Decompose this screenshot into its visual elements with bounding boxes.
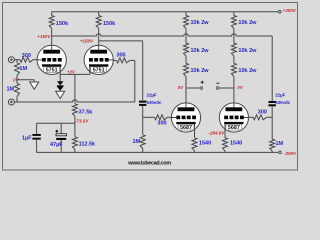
wire bottom jack to grid2 with hop (14, 100, 135, 102)
resistor 150k (left) (49, 16, 54, 29)
svg-text:1540: 1540 (199, 141, 211, 147)
resistor 1M (lower) (15, 83, 20, 96)
svg-text:-73.5V: -73.5V (75, 119, 89, 124)
svg-text:1M: 1M (132, 139, 140, 145)
resistor 10k 2w (right col mid) (231, 43, 236, 56)
resistor 10k 2w (left col mid) (184, 43, 189, 56)
wire col left to plate (185, 76, 187, 103)
wire 1540 left bottom (194, 151, 196, 153)
wire -300V bottom rail (37, 151, 279, 153)
svg-text:10k 2w: 10k 2w (191, 68, 210, 74)
diode D2 (57, 87, 64, 91)
svg-text:300: 300 (157, 121, 166, 127)
svg-text:5751: 5751 (93, 68, 105, 74)
wire ground stem (33, 80, 35, 82)
wire to tube2 grid (113, 59, 116, 61)
wire col left mid1 (185, 29, 187, 44)
svg-text:300: 300 (22, 53, 31, 59)
wire 47uF top lead (60, 123, 62, 134)
resistor 300 tube4 grid stopper (253, 115, 266, 120)
input jack (8, 57, 14, 63)
wire +300V top rail (52, 11, 279, 13)
wire to tube3 grid (167, 116, 171, 118)
svg-text:112.5k: 112.5k (79, 141, 96, 147)
wire 1540 right bottom (224, 151, 226, 153)
wire 112.5k to rail (74, 149, 76, 152)
capacitor 22uF left (139, 101, 146, 103)
wire 0V node down (16, 80, 18, 84)
terminal bottom input jack (8, 99, 14, 105)
svg-text:+150V: +150V (37, 34, 51, 39)
wire 1M to 0V node (16, 76, 18, 80)
wire grid2 riser (134, 60, 136, 102)
svg-text:10k 2w: 10k 2w (238, 20, 257, 26)
wire 1uF bottom lead (36, 140, 38, 153)
wire right 1M bottom (271, 151, 273, 153)
svg-text:1M: 1M (6, 87, 14, 93)
wire right coupling drop (271, 36, 273, 101)
svg-text:630vdc: 630vdc (275, 100, 290, 105)
svg-text:10k 2w: 10k 2w (191, 20, 210, 26)
svg-text:150k: 150k (103, 21, 116, 27)
terminal -300V (279, 151, 282, 154)
svg-text:1µF: 1µF (22, 135, 32, 141)
wire col right top lead (233, 12, 235, 16)
svg-text:+300V: +300V (283, 8, 297, 13)
svg-text:1M: 1M (19, 66, 27, 72)
wire right 1M top (271, 117, 273, 139)
capacitor 22uF right (269, 101, 276, 103)
svg-text:1M: 1M (276, 141, 284, 147)
wire tube2 cathode drop (89, 73, 91, 74)
wire -73.5V node down (74, 123, 76, 137)
wire col left mid2 (185, 56, 187, 63)
terminal output - (216, 87, 219, 90)
svg-text:5687: 5687 (180, 125, 192, 131)
wire to tube1 grid (33, 59, 37, 61)
wire col right mid2 (233, 56, 235, 63)
wire to tube4 grid (249, 116, 253, 118)
tube 5751 (left) (37, 45, 66, 74)
svg-text:22µF: 22µF (147, 92, 157, 97)
svg-text:300: 300 (258, 109, 267, 115)
wire tube3 cathode drop (194, 131, 196, 138)
plus sign 47uF (55, 130, 58, 133)
wire tube2 plate lead (98, 29, 100, 46)
wire 22uF right bottom (271, 106, 273, 117)
svg-text:-300V: -300V (284, 151, 297, 156)
resistor 10k 2w (left col low) (184, 63, 189, 76)
wire 1M to bottom jack (14, 96, 17, 102)
wire right grid T left (266, 116, 272, 118)
wire tube2 plate branch (99, 40, 143, 42)
wire col right to plate (233, 76, 235, 103)
wire 0V node to ground (17, 79, 34, 81)
tube 5687 (right) (219, 103, 248, 132)
resistor 300 tube2 grid stopper (117, 58, 130, 63)
svg-text:5687: 5687 (228, 125, 240, 131)
resistor 1540 (left) (192, 138, 197, 151)
wire tube1 plate bus with hops (52, 34, 273, 36)
wire input (14, 59, 20, 61)
svg-text:+150V: +150V (80, 38, 94, 43)
wire cathode divider drop (74, 74, 76, 103)
ground (input) (30, 82, 39, 89)
minus sign output (216, 82, 219, 84)
wire left coupling drop (142, 41, 144, 100)
svg-text:1540: 1540 (230, 141, 242, 147)
wire left grid T right (143, 116, 155, 118)
resistor 1M (upper) (15, 63, 20, 76)
resistor 10k 2w (left col top) (184, 16, 189, 29)
wire cathode link (60, 73, 90, 75)
plus sign output (201, 81, 204, 84)
wire 1uF top lead (36, 123, 38, 134)
resistor 300 tube3 grid stopper (155, 115, 168, 120)
terminal +300V (279, 10, 282, 13)
wire left 1M bottom (142, 149, 144, 153)
resistor 1M (right grid leak) (270, 139, 275, 151)
wire tube4 cathode drop (224, 131, 226, 138)
wire to - output terminal (219, 87, 234, 89)
svg-text:10k 2w: 10k 2w (238, 68, 257, 74)
capacitor 1uF (32, 134, 40, 136)
svg-text:10k 2w: 10k 2w (191, 48, 210, 54)
svg-text:+2V: +2V (67, 69, 76, 74)
diode D1 (57, 81, 64, 85)
resistor 10k 2w (right col top) (231, 16, 236, 29)
wire col right mid1 (233, 29, 235, 44)
tube 5751 (right) (84, 45, 113, 74)
svg-text:5751: 5751 (46, 68, 58, 74)
svg-text:150k: 150k (56, 21, 69, 27)
tube 5687 (left) (171, 103, 200, 132)
resistor 10k 2w (right col low) (231, 63, 236, 76)
svg-text:10k 2w: 10k 2w (238, 48, 257, 54)
svg-text:www.tubecad.com: www.tubecad.com (127, 161, 171, 167)
svg-text:37.5k: 37.5k (79, 110, 94, 116)
resistor 1M (left grid leak) (140, 135, 145, 149)
svg-text:300: 300 (116, 53, 125, 59)
wire tube1 cathode drop (59, 73, 61, 74)
resistor 150k (right) (96, 16, 101, 29)
wire 1M top lead (16, 60, 18, 63)
wire 37.5k to -73.5V node (74, 116, 76, 123)
svg-text:-284.6V: -284.6V (209, 130, 226, 135)
border frame (3, 3, 298, 171)
wire tube1 plate lead (51, 29, 53, 46)
wire 47uF bottom lead (60, 140, 62, 152)
capacitor 47uF (56, 134, 66, 136)
wire left 1M top (142, 117, 144, 135)
terminal output + (200, 87, 203, 90)
wire R2 top lead (98, 12, 100, 16)
svg-text:22µF: 22µF (275, 92, 285, 97)
resistor 37.5k (72, 104, 77, 116)
svg-text:630vdc: 630vdc (147, 100, 162, 105)
wire col left top lead (185, 12, 187, 16)
ground (cathode diodes) (56, 91, 65, 98)
wire to + output terminal (186, 87, 200, 89)
wire 22uF left bottom (142, 106, 144, 117)
wire cathode to diodes (59, 74, 61, 81)
resistor 112.5k (72, 137, 77, 150)
wire R1 top lead (51, 12, 53, 16)
wire grid2 corner (130, 59, 135, 61)
wire diode to ground (59, 90, 61, 93)
resistor 1540 (right) (223, 138, 228, 151)
resistor 300 input grid stopper (20, 57, 33, 62)
wire caps top rail (37, 122, 75, 124)
